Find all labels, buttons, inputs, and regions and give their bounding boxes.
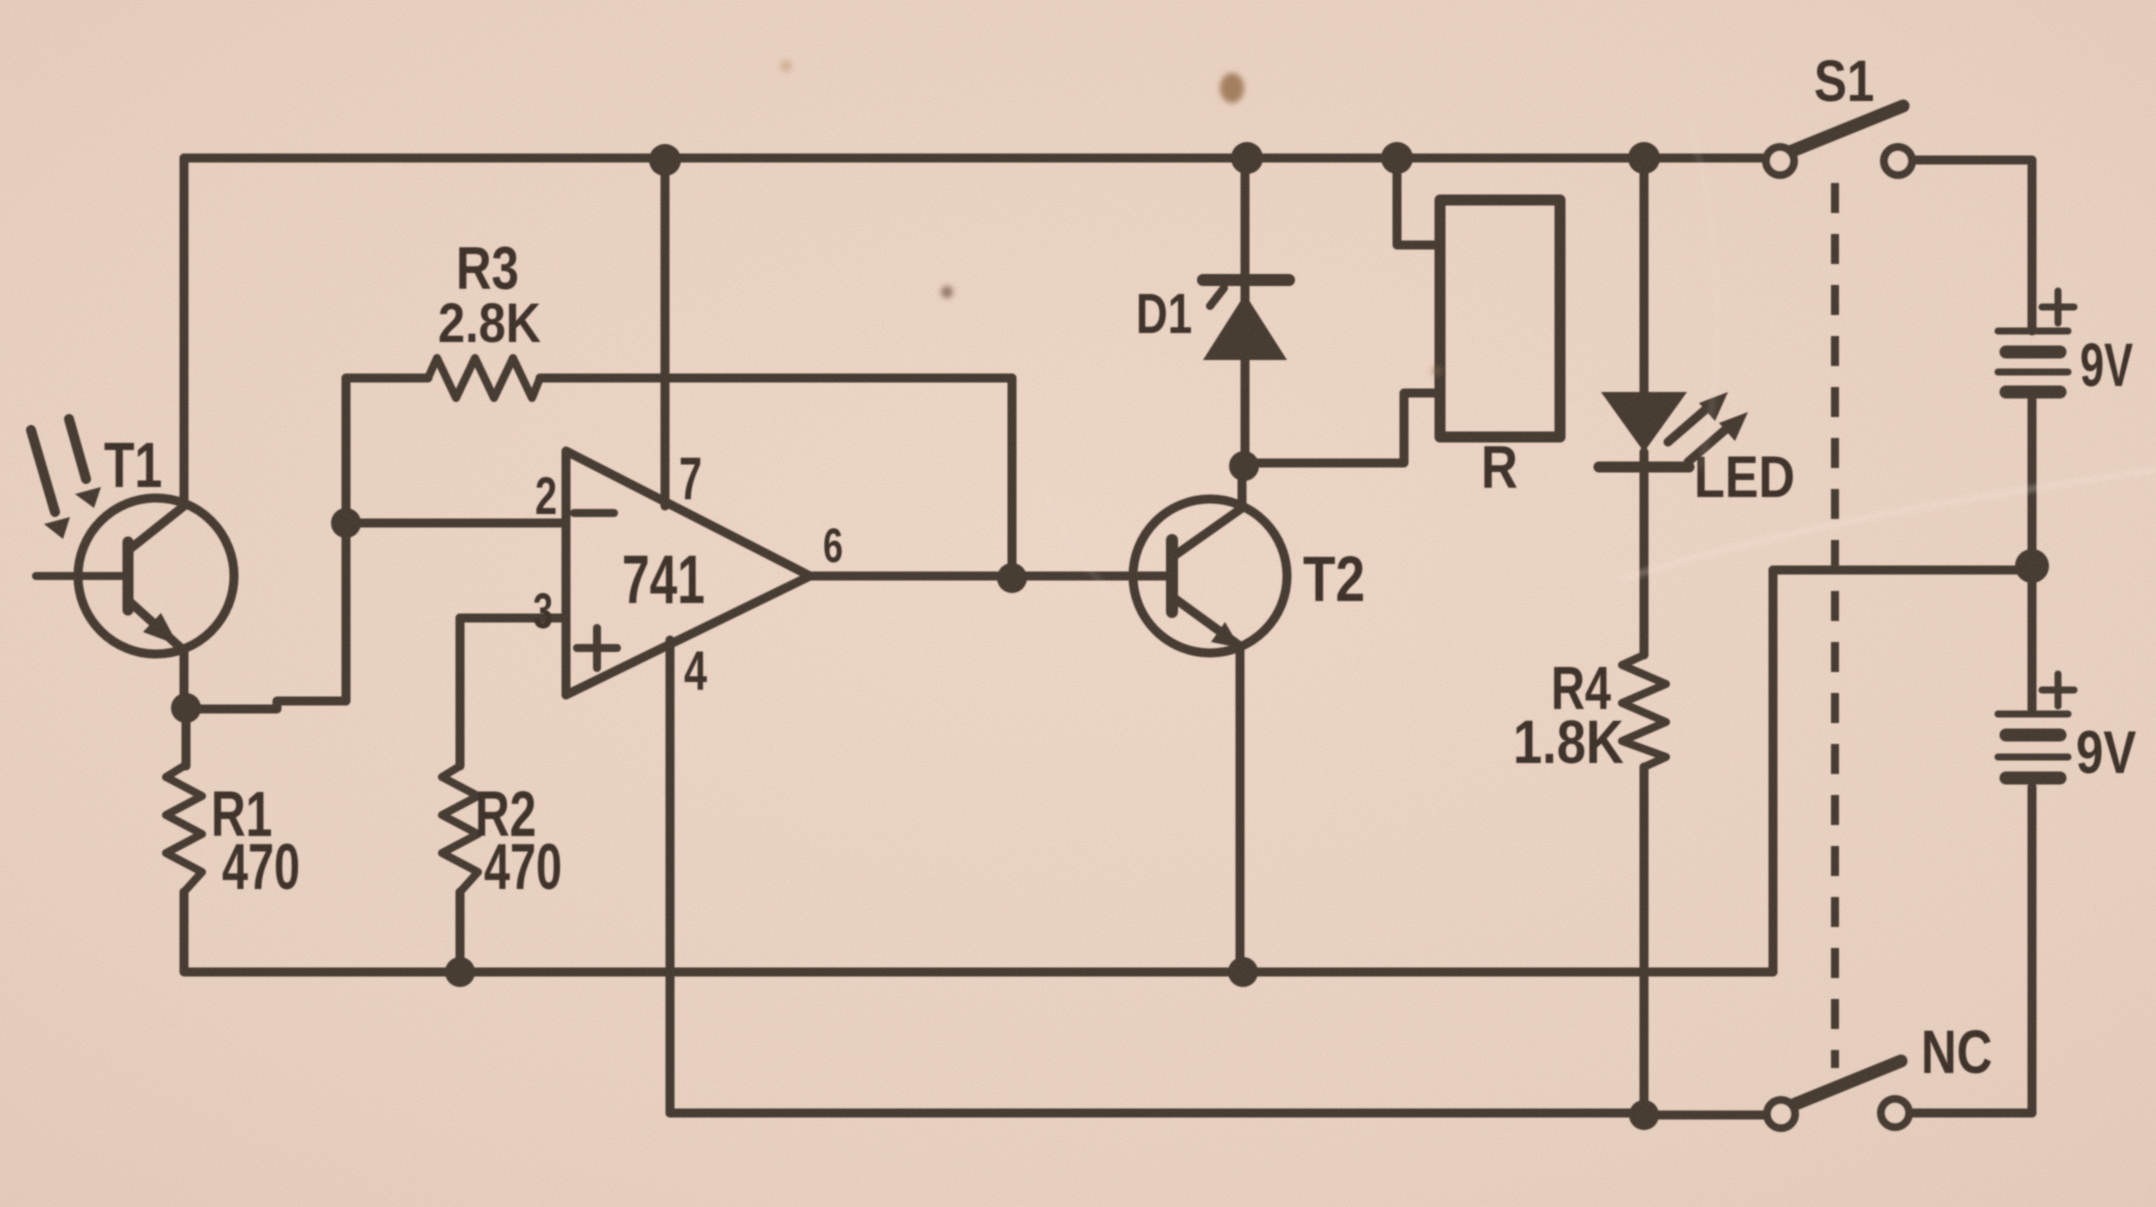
wire R3 branch vertical (342, 378, 351, 701)
wire T1 collector drop from rail (180, 158, 189, 504)
wire battery B2 minus riser (2028, 787, 2037, 1113)
node dot rail/LED (1628, 142, 1660, 174)
relay R top lead (1397, 160, 1440, 245)
resistor R2 zigzag (442, 766, 478, 892)
transistor T1 circle (78, 498, 234, 654)
resistor R3 zigzag (428, 358, 540, 398)
node dot D1/T2 collector/relay (1229, 451, 1259, 481)
wire T2 collector vertical (1238, 466, 1247, 508)
LED arrow 1 head (1699, 392, 1728, 421)
dashed mechanical link S1-NC (1831, 183, 1839, 1068)
wire R1 bottom lead (180, 892, 189, 972)
battery B2 plates (1998, 711, 2068, 718)
node dot rail/relay (1381, 142, 1413, 174)
wire op-amp output to T2 base (810, 572, 1136, 581)
paper stain top (780, 60, 1442, 376)
wire R3 right lead (540, 374, 1012, 383)
wire R3 left lead (346, 374, 428, 383)
diode D1 vertical wire (1241, 160, 1250, 466)
transistor T1 base lead (36, 572, 128, 580)
LED light arrow 1 (1668, 410, 1705, 442)
transistor T2 emitter diagonal (1174, 598, 1240, 646)
transistor T2 base lead (1136, 572, 1172, 581)
wire pin7 vertical from rail to op-amp (661, 160, 670, 506)
transistor T1 collector diagonal (130, 506, 184, 549)
switch NC left contact (1767, 1100, 1795, 1128)
wire R2 top vertical (456, 618, 465, 766)
battery B2 plus sign (2042, 674, 2074, 706)
node dot R4 / pin4 / NC (1629, 1100, 1659, 1130)
node dot rail/pin7 (649, 144, 681, 176)
wire T1 emitter to node (180, 649, 189, 700)
T1 light arrow 2 head (75, 487, 101, 508)
wire R2 bottom lead (456, 892, 465, 972)
resistor R4 zigzag (1622, 655, 1666, 767)
node dot rail/D1 (1231, 142, 1263, 174)
battery B1 plates (1998, 328, 2068, 335)
switch NC right contact (1881, 1099, 1909, 1127)
T1 light arrow 2 (69, 419, 86, 479)
transistor T1 emitter diagonal (130, 602, 182, 649)
node dot output/feedback (997, 563, 1027, 593)
switch NC lever (1793, 1061, 1901, 1105)
wire pin3 input (460, 614, 566, 623)
switch S1 right contact (1884, 147, 1912, 175)
paper creases (1040, 120, 2156, 600)
transistor T2 base bar (1166, 540, 1178, 612)
LED triangle (1601, 392, 1687, 452)
LED anode to bar segment (1640, 452, 1649, 469)
node dot R2 / bottom rail (445, 957, 475, 987)
transistor T1 base bar (123, 542, 134, 610)
wire battery B2 top to midpoint node (2028, 566, 2037, 710)
wire pin4 run to NC node (670, 1109, 1644, 1118)
wire pin4 vertical (666, 640, 675, 1113)
node dot T2 emitter / bottom rail (1228, 957, 1258, 987)
wire pin2 input (346, 519, 566, 528)
node dot battery midpoint (2015, 549, 2049, 583)
wire to battery midpoint node (1773, 566, 2032, 575)
resistor R1 zigzag (166, 766, 202, 892)
LED cathode bar (1599, 462, 1689, 473)
relay R coil rectangle (1440, 200, 1560, 437)
node dot T1 emitter / R1 (171, 693, 201, 723)
node dot R3 branch / pin2 (331, 508, 361, 538)
switch S1 left contact (1766, 147, 1794, 175)
T1 emitter arrowhead (143, 613, 178, 645)
wire right riser of bottom rail (1769, 570, 1778, 972)
wire R4 bottom to NC node (1640, 767, 1649, 1115)
wire NC right contact to battery minus (1909, 1109, 2032, 1118)
wire emitter jog from T1 node to R3 branch (186, 701, 346, 709)
diode D1 cathode bar (1203, 274, 1289, 286)
diode D1 triangle (1203, 294, 1287, 360)
battery B1 plus sign (2042, 291, 2074, 323)
relay R bottom lead (1244, 393, 1440, 463)
wire battery B1 top to S1 (1912, 160, 2032, 331)
wire feedback drop to output node (1008, 378, 1017, 578)
wire LED branch from rail (1640, 160, 1649, 392)
LED light arrow 2 (1688, 430, 1725, 462)
op-amp minus input stub (574, 509, 614, 517)
wire T2 emitter vertical (1236, 646, 1245, 972)
LED arrow 2 head (1719, 412, 1748, 441)
wire R1 top lead (182, 708, 191, 766)
wire NC node to left contact (1644, 1111, 1767, 1120)
T1 light arrow 1 (31, 430, 55, 512)
wire LED bar to R4 (1640, 469, 1649, 655)
wire battery B1 bottom to midpoint node (2028, 396, 2037, 566)
transistor T2 circle (1133, 499, 1287, 653)
wire bottom rail (186, 968, 1773, 977)
op-amp U1 741 triangle (566, 451, 810, 695)
switch S1 lever (1792, 106, 1903, 151)
diode D1 tick mark (1210, 288, 1224, 306)
T1 light arrow 1 head (44, 517, 70, 539)
transistor T2 collector diagonal (1174, 508, 1242, 556)
T2 emitter arrowhead (1211, 622, 1240, 648)
wire top supply rail (184, 154, 1766, 163)
op-amp plus input sign (577, 628, 617, 668)
